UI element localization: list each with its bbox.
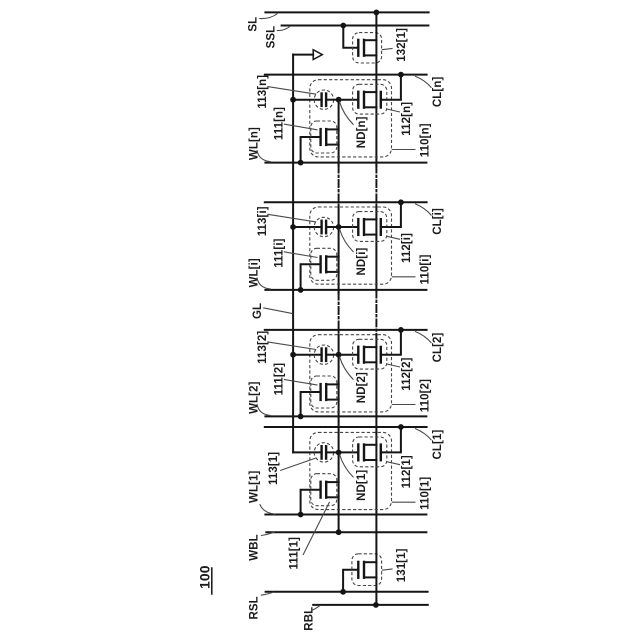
dashed outline of 112[n] [353,84,387,114]
wire GL to capacitor 113[i] [293,226,322,228]
wire SL column dash-dot continuation segments [375,166,377,335]
svg-text:ND[i]: ND[i] [356,247,368,275]
label 110[1] [392,477,432,510]
wire node to gate of 112[n] [339,99,358,101]
junction on SL [374,10,380,16]
svg-text:113[1]: 113[1] [268,452,280,485]
label 111[1] [289,502,330,570]
svg-text:CL[i]: CL[i] [432,208,444,235]
wire WL[n] line [265,162,426,164]
label WL[2] [249,381,272,415]
junction on RSL [340,589,346,595]
node ND[i] [336,224,342,230]
junction on WL[i] [298,287,304,293]
transistor 112[1] [358,445,376,461]
wire WL[i] to gate of 111[i] [301,264,320,290]
wire WL[2] to gate of 111[2] [301,392,320,416]
svg-text:110[2]: 110[2] [420,379,432,412]
wire WBL column dash-dot continuation segments [338,166,340,335]
back plate of 112[n] [380,92,382,108]
junction on CL[1] [398,424,404,430]
svg-text:113[2]: 113[2] [257,331,269,364]
label ND[n] [340,102,369,149]
wire WBL column solid segments [338,100,340,533]
svg-text:111[n]: 111[n] [273,107,285,140]
svg-text:ND[2]: ND[2] [356,372,368,403]
wire CL[1] line [265,426,427,428]
transistor 112[i] [358,219,376,235]
wire 112[i] to CL[i] [381,202,401,227]
figure number 100 [197,565,213,594]
label GL [252,303,293,319]
node ND[2] [336,352,342,358]
junction on CL[n] [398,72,404,78]
capacitor 113[2] [314,345,333,364]
wire WL[1] line [265,514,426,516]
wire WL[1] to gate of 111[1] [301,490,320,515]
transistor 111[n] [321,129,339,145]
wire WBL line [266,531,426,533]
wire WL[i] line [265,289,426,291]
label 112[i] [387,233,413,263]
wire 112[n] to CL[n] [381,75,401,100]
svg-text:RBL: RBL [304,607,316,631]
node ND[n] [336,97,342,103]
transistor 131[1] [358,562,376,578]
node ND[1] [336,450,342,456]
svg-text:CL[2]: CL[2] [432,332,444,362]
label 113[2] [257,331,316,364]
junction on CL[i] [398,199,404,205]
label WL[n] [249,127,272,162]
svg-text:ND[1]: ND[1] [356,470,368,501]
junction on GL [290,224,296,230]
dashed outline of 111[n] [311,121,337,153]
back plate of 112[1] [380,445,382,461]
arrow head on GL [313,50,322,60]
wire capacitor to node ND[2] [326,354,339,356]
label 113[i] [257,206,316,236]
svg-text:113[i]: 113[i] [257,206,269,236]
transistor 111[2] [321,384,339,400]
svg-text:GL: GL [252,303,264,319]
svg-text:110[n]: 110[n] [420,123,432,157]
label ND[1] [340,454,369,501]
svg-text:112[i]: 112[i] [401,233,413,263]
junction on WL[1] [298,512,304,518]
wire 112[2] to CL[2] [381,330,401,355]
label 112[1] [387,455,413,488]
label WL[i] [249,258,272,289]
wire GL top bend to arrow [293,54,313,56]
wire RBL line [313,604,428,606]
wire WL[n] to gate of 111[n] [301,137,320,163]
label ND[2] [340,357,369,404]
label RSL [249,592,275,620]
junction on GL [290,97,296,103]
label 132[1] [382,28,408,62]
svg-text:SL: SL [248,17,260,32]
label SSL [266,26,291,49]
wire WL[2] line [265,415,426,417]
wire GL bend into capacitor 113[1] [293,451,322,453]
wire RSL to gate of 131[1] [343,570,357,592]
svg-text:112[n]: 112[n] [401,102,413,136]
label 110[i] [392,254,432,284]
wire GL vertical line [292,55,294,453]
svg-text:WBL: WBL [249,534,261,560]
wire 112[1] to CL[1] [381,427,401,452]
wire capacitor to node ND[1] [326,451,339,453]
label 112[2] [387,357,413,390]
junction on WL[n] [298,160,304,166]
label 110[2] [392,379,432,412]
wire capacitor to node ND[i] [326,226,339,228]
capacitor 113[n] [314,90,333,109]
svg-text:CL[n]: CL[n] [432,77,444,108]
dashed outline of 132[1] [353,33,382,63]
svg-text:111[i]: 111[i] [273,238,285,267]
junction on GL [290,352,296,358]
dashed outline of 111[1] [311,474,337,506]
wire node to gate of 112[i] [339,226,358,228]
label WL[1] [249,470,276,514]
transistor 111[1] [321,482,339,498]
wire SSL line [282,25,429,27]
dashed outline of 112[i] [353,212,387,242]
wire GL to capacitor 113[n] [293,99,322,101]
svg-text:112[2]: 112[2] [401,357,413,390]
label RBL [304,605,321,631]
label CL[2] [415,331,444,362]
wire SL line [265,11,428,13]
back plate of 112[i] [380,219,382,235]
label CL[n] [415,76,444,107]
wire node to gate of 112[1] [339,451,358,453]
label SL [248,14,278,32]
wire CL[i] line [265,201,427,203]
svg-text:SSL: SSL [266,26,278,49]
cell 110[2] dashed outline [310,335,392,412]
junction on SSL [340,23,346,29]
label 111[i] [273,238,317,267]
dashed outline of 131[1] [352,554,382,586]
label 111[n] [273,107,317,140]
label 113[1] [268,452,316,485]
label CL[i] [415,204,444,235]
svg-text:131[1]: 131[1] [396,548,408,582]
capacitor 113[i] [314,217,333,236]
wire RSL line [266,591,428,593]
transistor 112[n] [358,92,376,108]
junction on WL[2] [298,414,304,420]
wire CL[n] line [265,74,427,76]
svg-text:WL[1]: WL[1] [249,470,261,503]
svg-text:132[1]: 132[1] [396,28,408,62]
cell 110[n] dashed outline [310,80,392,157]
wire node to gate of 112[2] [339,354,358,356]
dashed outline of 112[2] [353,339,387,369]
label CL[1] [415,429,444,460]
cell 110[1] dashed outline [310,432,392,509]
label WBL [249,532,275,561]
junction on CL[2] [398,327,404,333]
svg-text:ND[n]: ND[n] [356,116,368,148]
back plate of 112[2] [380,347,382,363]
svg-text:CL[1]: CL[1] [432,430,444,460]
label 113[n] [257,75,316,109]
svg-text:112[1]: 112[1] [401,455,413,488]
wire capacitor to node ND[n] [326,99,339,101]
label 131[1] [382,548,408,582]
capacitor 113[1] [314,443,333,462]
label 111[2] [273,363,317,396]
junction on WBL [336,529,342,535]
dashed outline of 111[2] [311,376,337,408]
svg-text:113[n]: 113[n] [257,75,269,109]
wire GL to capacitor 113[2] [293,354,322,356]
svg-text:110[i]: 110[i] [420,254,432,284]
wire SSL to gate of 132[1] [343,26,357,48]
svg-text:RSL: RSL [249,596,261,619]
cell 110[i] dashed outline [310,207,392,284]
label 112[n] [387,102,413,136]
label 110[n] [392,123,432,157]
svg-text:111[1]: 111[1] [289,537,301,570]
svg-text:110[1]: 110[1] [420,477,432,510]
svg-text:111[2]: 111[2] [273,363,285,396]
wire CL[2] line [265,329,427,331]
transistor 111[i] [321,256,339,272]
dashed outline of 111[i] [311,248,337,280]
svg-text:100: 100 [197,565,213,589]
label ND[i] [340,229,369,276]
transistor 132[1] [358,40,376,56]
wire SL column solid segments [375,12,377,605]
dashed outline of 112[1] [353,437,387,467]
junction on RBL [373,602,379,608]
transistor 112[2] [358,347,376,363]
